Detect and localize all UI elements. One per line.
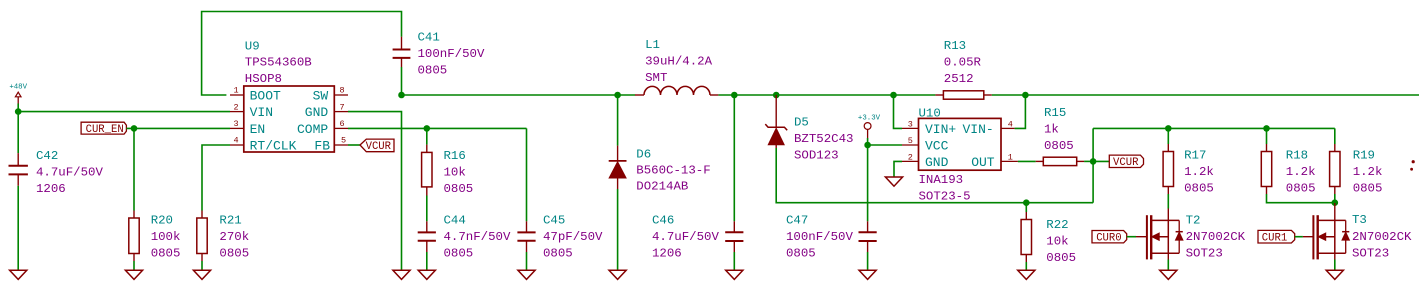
svg-text:5: 5 (908, 136, 913, 146)
svg-text:HSOP8: HSOP8 (245, 72, 282, 86)
junction R22 node (1023, 199, 1030, 206)
svg-text:+3.3V: +3.3V (858, 115, 881, 123)
svg-text:2N7002CK: 2N7002CK (1352, 230, 1412, 244)
svg-text:R20: R20 (151, 214, 173, 228)
svg-text:1: 1 (1008, 153, 1013, 163)
svg-text:C46: C46 (652, 214, 674, 228)
resistor R18 (1261, 144, 1271, 194)
R13 value labels (944, 39, 982, 86)
svg-text:2: 2 (908, 153, 913, 163)
wire CUR1 to T3 gate (1295, 236, 1303, 238)
resistor R13 shunt (894, 91, 1026, 99)
C45 value labels (543, 214, 603, 261)
wire L1 to output rail (718, 94, 893, 96)
global label VCUR output (1093, 155, 1143, 169)
wire R19 top (1334, 128, 1336, 144)
svg-text:R16: R16 (444, 149, 466, 163)
wire R20 to ground (133, 261, 135, 270)
svg-text:D6: D6 (636, 148, 651, 162)
junction D5 node (773, 92, 780, 99)
wire output rail to right edge (1025, 94, 1419, 96)
svg-text:BOOT: BOOT (250, 89, 281, 104)
svg-text:SOT23: SOT23 (1186, 247, 1223, 261)
svg-text:0805: 0805 (151, 247, 181, 261)
U10 pin 2 GND (902, 153, 949, 170)
ground C42 (10, 270, 27, 279)
svg-text:2: 2 (234, 102, 239, 112)
junction C46 node (731, 92, 738, 99)
junction VCUR node (1090, 158, 1097, 165)
junction +3.3V node (864, 142, 871, 149)
svg-text:SW: SW (313, 89, 329, 104)
wire D6 to ground (617, 189, 619, 270)
wire R18 bottom to T3 drain rail (1267, 194, 1335, 203)
wire COMP down to R16 (426, 128, 428, 144)
wire +3.3V down to C47 (867, 145, 869, 221)
svg-text:1: 1 (234, 86, 239, 96)
wire VIN- to rail (1015, 95, 1026, 128)
global label CUR1 (1258, 230, 1295, 244)
wire R22 to ground (1025, 262, 1027, 270)
svg-text:GND: GND (925, 155, 949, 170)
svg-text:39uH/4.2A: 39uH/4.2A (645, 55, 712, 69)
svg-text:6: 6 (340, 119, 345, 129)
ground C47 (859, 270, 876, 279)
svg-text:3: 3 (908, 120, 913, 130)
wire D6 node down (617, 95, 619, 146)
capacitor C47 (859, 221, 877, 252)
svg-text:1k: 1k (1044, 123, 1059, 137)
wire RT/CLK to R21 (202, 145, 230, 211)
svg-text:SOD123: SOD123 (794, 149, 839, 163)
wire SW rail to L1 (402, 94, 636, 96)
power symbol +3.3V (858, 115, 881, 145)
svg-text:100k: 100k (151, 230, 181, 244)
svg-text:U9: U9 (245, 39, 260, 53)
wire C44 to ground (426, 252, 428, 270)
svg-text:+48V: +48V (9, 84, 27, 92)
svg-text:VCUR: VCUR (1113, 157, 1139, 169)
inductor L1 (635, 86, 718, 95)
wire GND pin to ground rail (348, 112, 402, 271)
T2 labels (1186, 214, 1246, 261)
global label VCUR at FB (360, 139, 394, 153)
svg-text:1206: 1206 (652, 247, 682, 261)
capacitor C41 (393, 37, 411, 67)
svg-text:R18: R18 (1286, 149, 1308, 163)
svg-text:TPS54360B: TPS54360B (245, 56, 312, 70)
global label CURO (1092, 231, 1127, 245)
wire BOOT loop to C41 (202, 12, 402, 96)
svg-text:DO214AB: DO214AB (636, 180, 688, 194)
R21 value labels (219, 214, 249, 261)
svg-text:CUR1: CUR1 (1262, 233, 1287, 245)
resistor R21 (197, 211, 207, 262)
D5 value labels (794, 116, 854, 163)
R22 value labels (1046, 218, 1076, 265)
wire +3.3V to VCC (868, 144, 902, 146)
U10 pin 5 VCC (902, 136, 949, 153)
svg-text:FB: FB (314, 139, 330, 154)
wire R15 to VCUR junction (1084, 160, 1093, 162)
wire OUT to R15 (1018, 160, 1036, 162)
ground U9 GND (393, 270, 410, 279)
svg-text:1.2k: 1.2k (1286, 165, 1316, 179)
svg-text:0805: 0805 (786, 247, 816, 261)
svg-text:OUT: OUT (971, 155, 995, 170)
svg-text:GND: GND (305, 105, 329, 120)
svg-text:0805: 0805 (219, 247, 249, 261)
svg-text:BZT52C43: BZT52C43 (794, 132, 854, 146)
U9 pin 6 COMP (297, 119, 348, 137)
ground R21 (193, 270, 210, 279)
svg-text:T3: T3 (1352, 213, 1367, 227)
svg-text:100nF/50V: 100nF/50V (786, 230, 853, 244)
svg-text:0805: 0805 (444, 182, 474, 196)
svg-text:SOT23: SOT23 (1352, 247, 1389, 261)
wire +48V to VIN (18, 111, 230, 113)
wire D5 anode down to VCUR net (776, 148, 1093, 203)
wire C46 to ground (733, 252, 735, 270)
svg-text:C41: C41 (418, 31, 440, 45)
svg-text:CUR_EN: CUR_EN (86, 124, 124, 136)
ground D6 (609, 270, 626, 279)
ground T2 (1160, 270, 1177, 279)
svg-text:EN: EN (250, 122, 266, 137)
svg-text:0805: 0805 (444, 247, 474, 261)
junction SW node (398, 92, 405, 99)
svg-text:SMT: SMT (645, 71, 667, 85)
U10 pin 4 VIN- (962, 120, 1014, 137)
R15 value labels (1044, 106, 1074, 153)
diode D6 (609, 146, 627, 189)
D6 value labels (636, 148, 710, 194)
junction D6 node (614, 92, 621, 99)
wire EN junction down to R20 (133, 128, 135, 210)
svg-text:1.2k: 1.2k (1184, 165, 1214, 179)
U9 pin 8 SW (313, 86, 348, 104)
transistor T2 2N7002CK (1147, 209, 1183, 260)
wire +48V down to C42 (17, 112, 19, 154)
wire R22 down (1025, 203, 1027, 212)
R19 value labels (1353, 149, 1383, 196)
wire C45 to ground (526, 252, 528, 270)
svg-text:R19: R19 (1353, 149, 1375, 163)
svg-text:VCC: VCC (925, 139, 949, 154)
U10 labels (919, 107, 971, 204)
U10 pin 1 OUT (971, 153, 1018, 170)
C46 value labels (652, 214, 719, 261)
svg-text:4: 4 (234, 136, 239, 146)
svg-text:R13: R13 (944, 39, 966, 53)
svg-text:R21: R21 (219, 214, 241, 228)
power symbol +48V (9, 84, 27, 112)
svg-text:C47: C47 (786, 214, 808, 228)
wire VIN+ to rail (894, 95, 903, 128)
partial component text at right edge (1410, 160, 1415, 171)
wire R18 top (1266, 128, 1268, 144)
global label CUR_EN (81, 122, 126, 136)
svg-text:0805: 0805 (418, 64, 448, 78)
svg-text:47pF/50V: 47pF/50V (543, 230, 603, 244)
op-amp U9 TPS54360B body (244, 86, 334, 152)
svg-text:2N7002CK: 2N7002CK (1186, 230, 1246, 244)
svg-text:C42: C42 (36, 149, 58, 163)
svg-text:3: 3 (234, 119, 239, 129)
wire U10 GND to ground (894, 161, 902, 177)
svg-text:4.7uF/50V: 4.7uF/50V (652, 230, 719, 244)
svg-text:4: 4 (1008, 120, 1013, 130)
svg-text:0805: 0805 (1286, 182, 1316, 196)
R20 value labels (151, 214, 181, 261)
L1 value labels (645, 38, 712, 85)
capacitor C46 (725, 221, 743, 252)
svg-text:COMP: COMP (297, 122, 328, 137)
svg-text:4.7uF/50V: 4.7uF/50V (36, 166, 103, 180)
wire VCUR node down to low rail (1092, 161, 1094, 202)
svg-text:RT/CLK: RT/CLK (250, 139, 297, 154)
ground U10 (885, 177, 902, 186)
svg-text:0805: 0805 (543, 247, 573, 261)
R16 value labels (444, 149, 474, 196)
svg-text:100nF/50V: 100nF/50V (418, 47, 485, 61)
svg-text:CUR0: CUR0 (1096, 233, 1121, 245)
svg-text:4.7nF/50V: 4.7nF/50V (444, 230, 511, 244)
svg-text:5: 5 (341, 136, 346, 146)
resistor R17 (1163, 144, 1173, 194)
svg-text:7: 7 (340, 102, 345, 112)
wire R21 to ground (201, 261, 203, 270)
svg-text:0805: 0805 (1046, 251, 1076, 265)
wire divider rail (1093, 127, 1335, 129)
U9 pin 1 BOOT (230, 86, 281, 104)
svg-text:VIN+: VIN+ (925, 122, 956, 137)
svg-text:10k: 10k (1046, 235, 1068, 249)
wire T2 source to ground (1167, 260, 1169, 271)
wire R19 bottom to T3 drain (1334, 194, 1336, 203)
junction COMP-R16 (424, 125, 431, 132)
C42 value labels (36, 149, 103, 196)
wire R17 to T2 drain (1167, 194, 1169, 209)
svg-text:10k: 10k (444, 166, 466, 180)
U9 pin 2 VIN (230, 102, 273, 120)
R18 value labels (1286, 149, 1316, 196)
svg-text:8: 8 (340, 86, 345, 96)
U9 pin 5 FB (314, 136, 348, 154)
svg-text:VIN: VIN (250, 105, 273, 120)
svg-text:VIN-: VIN- (962, 122, 993, 137)
resistor R15 (1036, 157, 1084, 165)
U9 value labels (245, 39, 312, 86)
wire R16 to C44 (426, 196, 428, 222)
zener diode D5 (765, 95, 787, 148)
svg-text:R22: R22 (1046, 218, 1068, 232)
junction R18 top (1263, 125, 1270, 132)
U9 pin 7 GND (305, 102, 348, 120)
wire C47 to ground (867, 252, 869, 270)
svg-text:1.2k: 1.2k (1353, 165, 1383, 179)
svg-text:U10: U10 (919, 107, 941, 121)
resistor R20 (129, 211, 139, 262)
wire COMP down to C45 (526, 128, 528, 221)
resistor R16 (422, 145, 432, 196)
ground C44 (418, 270, 435, 279)
capacitor C45 (517, 221, 535, 252)
junction VIN+ rail (890, 92, 897, 99)
ground R20 (125, 270, 142, 279)
U9 pin 3 EN (230, 119, 265, 137)
ground C46 (726, 270, 743, 279)
svg-text:1206: 1206 (36, 182, 66, 196)
svg-text:INA193: INA193 (919, 173, 964, 187)
svg-text:270k: 270k (219, 230, 249, 244)
svg-text:B560C-13-F: B560C-13-F (636, 164, 710, 178)
wire T3 source to ground (1334, 260, 1336, 271)
junction R17 top (1165, 125, 1172, 132)
wire CURO to T2 gate (1127, 236, 1136, 238)
C41 value labels (418, 31, 485, 78)
junction VIN- rail (1022, 92, 1029, 99)
junction +48V node (15, 108, 22, 115)
capacitor C44 (418, 221, 436, 252)
resistor R19 (1330, 144, 1340, 194)
ground T3 (1326, 270, 1343, 279)
wire C46 node down (733, 95, 735, 221)
ground C45 (518, 270, 535, 279)
ground R22 (1018, 270, 1035, 279)
wire C41 to SW node (401, 67, 403, 95)
T3 labels (1352, 213, 1412, 261)
wire FB to VCUR label (348, 144, 360, 146)
C47 value labels (786, 214, 853, 261)
svg-text:L1: L1 (645, 38, 660, 52)
svg-text:SOT23-5: SOT23-5 (919, 189, 971, 203)
junction EN node (131, 125, 138, 132)
junction T3 drain (1332, 199, 1339, 206)
capacitor C42 (9, 153, 28, 186)
svg-text:C44: C44 (444, 214, 466, 228)
svg-text:R17: R17 (1184, 149, 1206, 163)
svg-text:C45: C45 (543, 214, 565, 228)
U9 pin 4 RT/CLK (230, 136, 297, 154)
svg-text:R15: R15 (1044, 106, 1066, 120)
wire C42 to ground (17, 186, 19, 270)
svg-text:2512: 2512 (944, 72, 974, 86)
svg-text:0805: 0805 (1353, 182, 1383, 196)
wire COMP net (348, 127, 527, 129)
svg-text:T2: T2 (1186, 214, 1201, 228)
transistor T3 2N7002CK (1313, 203, 1349, 260)
svg-text:D5: D5 (794, 116, 809, 130)
op-amp U10 INA193 body (919, 118, 1002, 170)
U10 pin 3 VIN+ (902, 120, 956, 137)
wire R17 top (1167, 128, 1169, 144)
svg-text:0.05R: 0.05R (944, 56, 982, 70)
C44 value labels (444, 214, 511, 261)
wire VCUR node up to divider rail (1092, 128, 1094, 161)
wire CUR_EN to EN pin (126, 127, 230, 129)
R17 value labels (1184, 149, 1214, 196)
svg-text:0805: 0805 (1044, 139, 1074, 153)
resistor R22 (1021, 212, 1031, 262)
svg-text:VCUR: VCUR (366, 141, 392, 153)
svg-text:0805: 0805 (1184, 182, 1214, 196)
